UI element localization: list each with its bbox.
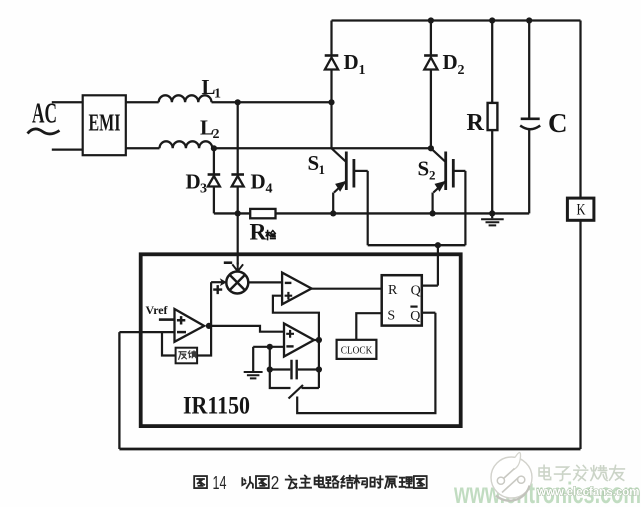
wire clock to S — [356, 313, 381, 340]
node L1-D4 tap — [235, 99, 241, 105]
diode D1 — [325, 54, 339, 57]
wire U2 out to R — [312, 288, 382, 290]
wire switch left — [270, 370, 291, 389]
wire K bottom — [579, 220, 581, 449]
ground symbol (output) — [491, 213, 493, 218]
wire C top — [528, 21, 530, 119]
wire Qbar out — [422, 312, 436, 314]
svg-text:2: 2 — [271, 473, 280, 493]
op-amp U1 (error amp) — [175, 309, 205, 342]
svg-text:4: 4 — [266, 182, 273, 197]
svg-text:2: 2 — [429, 168, 436, 183]
wire gate bus — [368, 244, 466, 246]
svg-text:CLOCK: CLOCK — [341, 344, 373, 356]
wire D1 cathode — [330, 21, 332, 56]
wire driver riser — [437, 245, 439, 285]
wire multiplier to comparator — [248, 281, 282, 283]
wire L1 tap down to D4 — [237, 102, 239, 173]
wire rail right segment — [276, 212, 530, 214]
multiplier circle — [226, 272, 248, 294]
wire Q out — [422, 285, 438, 287]
wire R bottom — [491, 130, 493, 213]
wire S2 gate down — [464, 171, 466, 245]
wire Vref input — [159, 318, 175, 321]
wire U1 out up to multiplier — [210, 282, 212, 326]
wire L1 to node — [212, 101, 332, 103]
watermark brand text — [539, 465, 551, 479]
svg-text:D: D — [344, 50, 359, 74]
node S2 emitter — [430, 210, 436, 216]
wire fankui to output node — [197, 326, 211, 356]
U3 plus — [286, 330, 294, 338]
svg-text:3: 3 — [200, 182, 207, 197]
svg-text:1: 1 — [214, 87, 221, 102]
wire D4 bottom — [237, 187, 239, 214]
svg-text:EMI: EMI — [89, 111, 121, 137]
node L1-D1-S1 — [328, 99, 334, 105]
wire left feedback riser — [118, 332, 120, 449]
node U1 output — [206, 323, 212, 329]
U2 minus — [285, 282, 292, 284]
wire D2 anode — [430, 70, 432, 149]
svg-text:D: D — [443, 50, 458, 74]
node U3 output — [314, 339, 319, 341]
wire bottom feedback — [119, 448, 580, 451]
transistor S2 (IGBT) — [431, 148, 445, 161]
svg-text:www.elecfans.com: www.elecfans.com — [536, 487, 639, 499]
wire EMI to L1 — [126, 101, 159, 103]
arrow into multiplier — [232, 263, 243, 272]
U2 plus — [285, 292, 293, 300]
svg-text:D: D — [186, 170, 201, 194]
caption: Fig 14 main circuit structure schematic — [194, 476, 207, 488]
wire U1 out to U3 plus — [209, 326, 284, 332]
svg-text:2: 2 — [458, 63, 465, 78]
wire feedback input — [119, 331, 174, 333]
node L2-D3 tap — [211, 145, 217, 151]
wire top rail — [332, 19, 581, 21]
inductor L1 — [159, 95, 212, 102]
op-amp U3 — [284, 324, 314, 357]
wire rail left segment — [214, 212, 250, 214]
wire K top — [579, 21, 581, 199]
node rail-R — [489, 17, 495, 23]
node rail-C — [526, 17, 532, 23]
wire sense tap to multiplier — [237, 213, 239, 264]
svg-text:S: S — [387, 309, 395, 324]
U3 minus — [286, 345, 293, 347]
feedback (fankui) box — [176, 348, 198, 364]
node U3 minus — [267, 344, 273, 350]
plus sign at multiplier — [213, 285, 222, 294]
wire cap right — [298, 368, 319, 370]
watermark logo — [491, 452, 532, 500]
wire D3 top — [213, 148, 215, 173]
svg-text:S: S — [418, 157, 430, 181]
ground symbol (IR1150) — [244, 372, 263, 378]
CLOCK box — [337, 340, 377, 359]
comparator U2 — [282, 273, 311, 305]
node R bottom ground — [489, 210, 495, 216]
IR1150 box — [141, 254, 461, 426]
RS flip-flop box — [382, 275, 422, 325]
node rail sense tap — [235, 210, 241, 216]
wire minus node down — [269, 347, 271, 370]
node L2-D2-S2 — [428, 145, 434, 151]
diode D2 — [424, 54, 438, 57]
node rail-D2 — [428, 17, 434, 23]
svg-text:1: 1 — [319, 162, 326, 177]
EMI filter box — [83, 95, 126, 155]
wire EMI to L2 — [126, 147, 160, 149]
node cap left — [267, 366, 273, 372]
wire to ground — [252, 347, 254, 371]
wire L2 to node — [212, 147, 431, 149]
svg-text:14: 14 — [213, 473, 227, 493]
svg-text:D: D — [251, 170, 266, 194]
U1 minus — [177, 331, 186, 334]
wire switch right — [302, 387, 319, 389]
wire D2 cathode — [430, 21, 432, 56]
node S1 emitter — [330, 210, 336, 216]
resistor R_jian — [250, 209, 275, 218]
capacitor Ct — [292, 360, 297, 380]
diode D3 — [208, 173, 221, 176]
svg-text:K: K — [577, 202, 586, 219]
svg-text:S: S — [308, 151, 320, 175]
wire cap left — [270, 368, 291, 370]
AC tilde — [28, 129, 60, 134]
wire switch drive — [297, 313, 435, 413]
transistor S1 (IGBT) — [332, 148, 346, 161]
wire C bottom — [528, 130, 530, 214]
minus sign at multiplier — [224, 261, 232, 264]
wire D1 anode — [330, 70, 332, 103]
wire AC to EMI top — [52, 101, 83, 103]
node gate bus to driver — [435, 242, 441, 248]
switch blade — [289, 385, 304, 399]
svg-text:C: C — [548, 108, 568, 138]
wire verr to multiplier — [211, 281, 222, 283]
svg-text:R: R — [250, 220, 268, 246]
relay K box — [567, 198, 594, 220]
svg-text:R: R — [467, 110, 485, 136]
capacitor C — [521, 118, 540, 121]
node cap right — [316, 366, 322, 372]
wire S1 collector riser — [330, 102, 332, 148]
wire to fankui box — [162, 332, 176, 355]
wire U3 minus node — [253, 346, 284, 348]
wire D3 bottom — [213, 187, 215, 214]
svg-text:2: 2 — [213, 127, 220, 142]
U1 plus — [177, 316, 185, 324]
svg-text:IR1150: IR1150 — [183, 393, 250, 420]
inductor L2 — [160, 141, 213, 148]
wire U3 out down — [318, 340, 320, 388]
wire AC to EMI bottom — [52, 148, 83, 150]
wire S1 gate down — [367, 171, 369, 245]
svg-text:Q: Q — [410, 309, 420, 324]
svg-text:Vref: Vref — [146, 305, 168, 317]
resistor R — [488, 103, 498, 130]
wire ramp to U2 plus — [273, 296, 319, 340]
wire R top — [491, 21, 493, 103]
svg-text:R: R — [388, 283, 398, 298]
svg-text:1: 1 — [359, 63, 366, 78]
svg-text:Q: Q — [411, 284, 421, 299]
diode D4 — [231, 173, 244, 176]
